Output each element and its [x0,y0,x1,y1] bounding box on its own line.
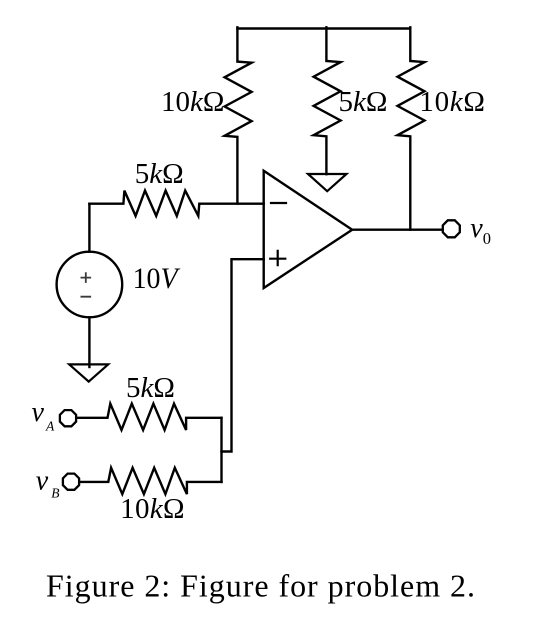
svg-text:10kΩ: 10kΩ [120,493,185,525]
svg-text:10kΩ: 10kΩ [161,86,224,118]
svg-text:v: v [32,397,45,428]
svg-text:5kΩ: 5kΩ [126,372,175,404]
svg-text:Figure 2: Figure for problem 2: Figure 2: Figure for problem 2. [46,568,475,604]
svg-text:v: v [470,213,483,244]
svg-text:5kΩ: 5kΩ [339,86,388,118]
svg-text:B: B [51,485,59,500]
svg-text:10kΩ: 10kΩ [419,86,485,118]
svg-text:10V: 10V [133,262,181,295]
svg-text:A: A [45,419,55,434]
svg-text:v: v [36,466,49,497]
svg-text:0: 0 [483,229,491,248]
svg-text:5kΩ: 5kΩ [135,158,184,190]
